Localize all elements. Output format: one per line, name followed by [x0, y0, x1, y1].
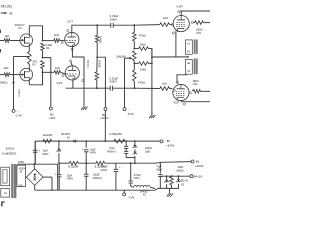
pin bubble pentode2 grid: [173, 89, 175, 91]
wire to pentode2 grid: [170, 88, 173, 90]
label (50k) note: [0, 81, 8, 85]
label R1: [32, 64, 36, 67]
label 400V first: [42, 153, 49, 156]
svg-text:100kΩ: 100kΩ: [145, 147, 152, 150]
resistor 180 ohm upper: [195, 21, 204, 25]
label V1/T upper: [67, 19, 73, 23]
resistor 390k lower: [95, 72, 99, 80]
bias line vertical 3.3mA: [13, 57, 15, 110]
label +220V: [195, 164, 204, 168]
zener bias left: [164, 176, 169, 188]
label B4+32V: [194, 175, 203, 178]
wire net top to 470k: [133, 25, 135, 32]
label 6.2k upper: [45, 44, 52, 47]
wire colAB join: [126, 157, 135, 159]
junction gate2 bias: [13, 74, 15, 76]
svg-text:+: +: [119, 165, 121, 169]
label NF: [9, 11, 13, 15]
resistor 470k upper: [133, 32, 137, 41]
svg-text:/500V: /500V: [110, 17, 117, 21]
wire bridge bottom: [34, 185, 36, 190]
svg-text:6.3Vdc: 6.3Vdc: [86, 59, 90, 68]
label 10k pot: [116, 55, 126, 59]
resistor 1k input lower: [4, 73, 10, 77]
transistor Q2 2SK117: [20, 68, 33, 81]
wire bias branch down: [130, 163, 132, 181]
svg-text:‹: ‹: [131, 191, 132, 195]
resistor 10k upper: [139, 47, 149, 51]
OPT2 core bars: [194, 58, 198, 74]
terminal B3: [49, 107, 52, 110]
node B2 tap rail: [104, 140, 106, 142]
wire 6.2k lower to grid2: [42, 69, 44, 73]
svg-text:1kΩ: 1kΩ: [163, 16, 168, 20]
svg-text:1N4007: 1N4007: [61, 132, 71, 136]
svg-text:+: +: [55, 172, 57, 176]
zener bias right: [176, 176, 181, 188]
wire B2 to PSU rail: [104, 111, 106, 142]
resistor 10k bias: [170, 176, 174, 188]
wire FET2 source down: [28, 81, 30, 85]
svg-text:1kΩ: 1kΩ: [4, 66, 9, 70]
label B1b: [196, 160, 200, 164]
wire node to B2 drop: [97, 57, 105, 107]
svg-text:-5.4V: -5.4V: [127, 112, 134, 116]
svg-text:V1/T: V1/T: [57, 81, 63, 85]
diode 1N4007 PSU: [74, 139, 76, 142]
tube V2 triode lower: [65, 66, 80, 80]
label 47uF bias: [156, 165, 162, 168]
svg-text:390kΩ: 390kΩ: [99, 36, 103, 44]
node cap2 top: [85, 140, 87, 142]
wire to grid stopper 1: [43, 40, 54, 42]
current arrow 3.3mA: [12, 82, 14, 85]
label 100k colB: [145, 147, 152, 150]
pin bubble pentode1 grid: [171, 23, 173, 25]
label 400V colA: [107, 150, 117, 153]
label 470uF fifth: [101, 166, 108, 169]
wire tube1 plate to rail: [71, 25, 73, 32]
node colB rail: [134, 162, 136, 164]
wire colB down: [134, 158, 136, 163]
resistor 1k 2W: [43, 139, 52, 143]
wire pot to node: [133, 61, 135, 64]
svg-text:1kΩ: 1kΩ: [4, 34, 9, 38]
label 1N4007 upper: [61, 132, 71, 136]
label 1W upper: [196, 31, 201, 35]
node cathode tap: [96, 56, 98, 58]
wire cap1 to net: [113, 24, 134, 26]
resistor 6.2k R2 upper: [41, 43, 45, 51]
tube V1 triode upper: [64, 32, 79, 46]
PSU lower rail a: [59, 162, 69, 164]
svg-text:+32V: +32V: [49, 116, 56, 120]
left edge stub upper: [0, 30, 1, 34]
bridge rectifier diamond: [26, 169, 43, 186]
capacitor 47uF bias: [158, 175, 162, 189]
svg-text:/250V(2): /250V(2): [92, 177, 101, 180]
resistor 1k input upper: [4, 39, 10, 43]
wire 10k lower to gnd column: [148, 62, 152, 64]
terminal -5.4V bottom: [123, 190, 126, 196]
left edge stub lower: [0, 49, 1, 53]
wire sec top stub: [17, 164, 19, 165]
pin bubble tube1 grid: [61, 42, 63, 44]
label AC aux: [4, 191, 8, 195]
label 1N4007 lower: [139, 189, 149, 193]
OPT1 winding box: [185, 40, 192, 54]
label KmB250F2 model: [2, 151, 16, 155]
label 0.33uF upper: [110, 14, 119, 18]
node grid network top: [133, 24, 135, 26]
svg-text:1kΩ/2W: 1kΩ/2W: [43, 133, 53, 137]
wire 180R lower to edge: [200, 90, 210, 92]
svg-text:1kΩ: 1kΩ: [55, 66, 60, 70]
wire bridge right down: [51, 177, 53, 191]
label 250V fourth: [92, 177, 101, 180]
capacitor 0.33uF ch1: [111, 23, 113, 28]
label OPT1 t2: [187, 51, 191, 54]
wire to FET1 gate: [10, 40, 20, 42]
label -5.4V bottom: [128, 191, 135, 200]
bridge left stub: [25, 176, 26, 178]
node colB top: [134, 140, 136, 142]
wire 470k to node: [133, 41, 135, 49]
svg-text:V1/P: V1/P: [173, 101, 179, 105]
PT secondary box: [17, 165, 26, 187]
label K2 lower: [143, 194, 147, 197]
label -1.4V: [15, 113, 22, 117]
label 1W colB: [145, 151, 150, 154]
node bias b: [171, 175, 173, 177]
label 10uF third: [67, 174, 73, 177]
wire 470k lower to rail: [133, 81, 135, 88]
label 1k lower input: [4, 66, 9, 70]
label 470uF sixth: [134, 174, 141, 177]
pin bubble pentode2 cathode: [183, 103, 185, 105]
node 390k tap: [96, 24, 98, 26]
terminal -5.4V: [123, 108, 126, 111]
wire 6.2k to tap: [42, 51, 44, 58]
label EI504: [19, 167, 26, 170]
wire plate rail to cap: [72, 24, 111, 26]
pin bubble tube2 grid: [62, 75, 64, 77]
label K2 diode: [67, 136, 71, 139]
wire 390k to node: [96, 42, 98, 57]
resistor 8.2 second: [96, 161, 105, 165]
ground symbol divider: [149, 113, 155, 119]
pot wiper arrow: [125, 57, 133, 60]
wire bias horizontal: [160, 175, 190, 177]
resistor 8.2 first: [69, 161, 78, 165]
svg-text:B4+32V: B4+32V: [194, 175, 203, 178]
PSU rail to B1b terminal: [161, 161, 191, 164]
label RD-30: [181, 180, 189, 183]
svg-text:041 2E): 041 2E): [1, 4, 12, 8]
wire rail to pentode2 grid res: [135, 87, 160, 89]
node cap2 bottom: [85, 162, 87, 164]
resistor 47ohm interstage: [28, 52, 32, 65]
svg-text:/400V: /400V: [90, 152, 97, 155]
svg-text:V1/T: V1/T: [67, 19, 73, 23]
label 3.3mA rotated: [17, 89, 21, 97]
wire input lower: [0, 74, 4, 76]
terminal -1.4V: [12, 109, 15, 112]
svg-text:NF: NF: [9, 11, 13, 15]
zener column B first: [133, 141, 138, 148]
wire pot bottom to 10k: [134, 62, 138, 64]
node 390k lower rail: [96, 87, 98, 89]
label 2SK117: [15, 23, 25, 27]
wire tube2 plate up: [71, 62, 73, 66]
terminal B4: [190, 175, 193, 178]
resistor 390k upper: [95, 35, 99, 42]
pin bubble pentode2 screen: [189, 92, 191, 94]
label V1/P upper: [176, 5, 182, 9]
svg-text:‹: ‹: [129, 107, 130, 111]
svg-text:/400V: /400V: [42, 153, 49, 156]
tube V1/P pentode upper: [173, 16, 189, 32]
wire node to 470k lower: [133, 63, 135, 70]
svg-text:10kΩ(B): 10kΩ(B): [116, 55, 126, 59]
label 1W lower: [193, 82, 198, 86]
svg-text:50V/2A: 50V/2A: [6, 146, 15, 150]
label 100uF fourth: [93, 174, 100, 177]
NF feedback arrow: [1, 12, 8, 14]
label figure glyph: [1, 202, 5, 207]
label 1k grid upper: [54, 33, 59, 37]
svg-text:(5W)Ω: (5W)Ω: [177, 169, 184, 172]
wire pentode1 cathode stub: [175, 31, 177, 33]
ground rail: [35, 188, 158, 190]
label 5W bias: [177, 169, 184, 172]
label plus cap1: [38, 148, 40, 152]
label 180 upper: [196, 28, 202, 32]
wire screen to 180R: [193, 22, 194, 24]
capacitor 47uF column A: [124, 141, 128, 158]
secondary top wire: [18, 163, 41, 165]
bridge diode 1: [33, 174, 36, 176]
wire tube2 cathode down: [72, 80, 74, 88]
pin bubble pentode1 top: [178, 11, 180, 13]
label 250WV upper: [110, 17, 117, 21]
label 50V: [19, 184, 24, 187]
resistor 10k lower: [139, 62, 149, 66]
node zener1 bottom: [58, 162, 60, 164]
node pot top: [133, 48, 135, 50]
svg-text:+: +: [82, 147, 84, 151]
resistor 4.7k 2W: [114, 139, 125, 143]
resistor 1k grid stopper upper: [54, 39, 60, 43]
label OPT2 t2: [187, 70, 191, 73]
wire cap2 to net: [113, 87, 135, 89]
label +405V: [100, 116, 109, 120]
pin bubble pentode2 top: [177, 81, 179, 83]
potentiometer 10k body: [133, 51, 137, 61]
label 10k upper: [139, 42, 145, 46]
title text (041 2E): [1, 4, 12, 8]
node gnd column upper: [151, 57, 153, 59]
svg-text:/1W: /1W: [193, 82, 198, 86]
wire 390k lower to rail: [96, 80, 98, 88]
svg-text:230V: 230V: [18, 160, 24, 164]
resistor 470k lower: [133, 70, 137, 81]
label 390k upper rotated: [99, 36, 103, 44]
ground symbol main: [167, 188, 173, 196]
svg-text:V1/P: V1/P: [176, 5, 182, 9]
terminal B2: [104, 108, 107, 111]
label 470k upper: [139, 35, 146, 38]
label 10k bias: [177, 166, 183, 169]
label +420V: [166, 143, 175, 147]
wire pot top to 10k: [134, 48, 138, 50]
wire center tap feed: [152, 56, 188, 58]
PT core bars: [11, 164, 16, 198]
wire pentode2 cathode right: [181, 101, 210, 102]
label OPT1 t1: [187, 42, 191, 45]
svg-text:390kΩ: 390kΩ: [97, 60, 101, 68]
svg-text:47μF: 47μF: [109, 147, 115, 150]
tube V2/P pentode lower: [173, 84, 189, 100]
wire pentode2 plate to OPT2: [177, 75, 187, 84]
wire grid2 junction down: [29, 72, 42, 85]
zener RD upper-left: [57, 141, 62, 163]
ground symbol cathode: [81, 104, 87, 110]
pin bubble tube2 extra: [82, 79, 84, 81]
input wire upper: [0, 40, 4, 42]
label K1: [18, 27, 22, 30]
wire to grid stopper 2: [43, 71, 55, 73]
node OPT center tap: [187, 56, 189, 58]
node grid1 junction: [42, 40, 44, 42]
bottom signal rail ch2: [66, 87, 111, 89]
label 25V fifth: [101, 169, 108, 172]
wire pentode1 cath down: [175, 33, 177, 57]
svg-text:-1.4V: -1.4V: [15, 113, 22, 117]
PT primary box: [1, 167, 10, 186]
label 25V sixth: [134, 177, 140, 180]
wire plate to OPT1 edge: [180, 10, 210, 12]
wire node to 390k lower: [96, 57, 98, 72]
svg-text:/(25)V: /(25)V: [101, 169, 108, 172]
label V1/P lower: [173, 101, 179, 105]
capacitor 100uF fourth: [84, 163, 89, 190]
wire B4 line: [159, 162, 161, 174]
label 6.3Vdc rotated: [86, 59, 90, 68]
svg-text:/500V: /500V: [110, 80, 117, 84]
node pot bottom: [133, 63, 135, 65]
PT aux box: [1, 189, 10, 198]
svg-text:KmB250F2: KmB250F2: [2, 151, 16, 155]
label 50V/2A: [6, 146, 15, 150]
node grid network bottom: [134, 87, 136, 89]
label 1k pentode2: [162, 81, 167, 85]
bias line horizontal: [14, 56, 30, 58]
node grid2 junction: [42, 71, 44, 73]
svg-text:4.7kΩ(2W): 4.7kΩ(2W): [109, 132, 122, 136]
node bias c: [178, 175, 180, 177]
transistor Q1 2SK117: [20, 34, 33, 47]
label 400V second: [90, 152, 97, 155]
svg-text:/400V×2: /400V×2: [107, 150, 117, 153]
label 470k lower: [138, 81, 145, 84]
pin bubble pentode1 screen: [191, 21, 193, 23]
wire coil right: [150, 187, 155, 188]
wire pentode1 plate up: [180, 11, 182, 16]
label OPT2 t1: [187, 62, 191, 65]
svg-text:10kΩ: 10kΩ: [140, 67, 146, 71]
label 10k lower: [140, 67, 146, 71]
label plus cap2: [82, 147, 84, 151]
pin bubble tube2 plate: [70, 60, 72, 62]
svg-text:-5.4V: -5.4V: [128, 196, 135, 200]
OPT2 winding box: [185, 60, 192, 75]
capacitor 470uF sixth: [129, 181, 133, 186]
svg-text:RD-30: RD-30: [181, 180, 189, 183]
svg-text:470kΩ: 470kΩ: [138, 81, 145, 84]
wire coil left: [131, 186, 134, 187]
wire tube1 cathode path: [72, 47, 84, 106]
label plus cap5: [119, 165, 121, 169]
wire screen2 to 180R: [192, 89, 193, 91]
label 1k grid lower: [55, 66, 60, 70]
PSU lower rail c: [105, 162, 157, 164]
label 230V: [18, 160, 24, 164]
inductor heater coil: [134, 185, 151, 187]
label 10uF first: [42, 150, 48, 153]
svg-text:10kΩ: 10kΩ: [139, 42, 145, 46]
label 400V third: [67, 178, 74, 181]
OPT1 core bars: [194, 40, 198, 54]
label 47uF colA: [109, 147, 115, 150]
zener column B second: [133, 149, 138, 157]
ground rail right: [158, 187, 179, 189]
wire wiper to -5.4V terminal: [124, 58, 126, 107]
wire FET1 source to 47ohm: [28, 47, 30, 52]
node colA top: [125, 140, 127, 142]
resistor 1k pentode1 grid: [160, 23, 170, 27]
PSU lower rail d: [156, 161, 161, 164]
wire to pentode1 grid: [170, 24, 173, 26]
label 1k pentode1: [163, 16, 168, 20]
resistor 180 ohm lower: [193, 90, 200, 94]
svg-text:+220V: +220V: [195, 164, 204, 168]
node bias branch: [130, 162, 132, 164]
capacitor 10uF second: [84, 141, 89, 163]
label 1k upper input: [4, 34, 9, 38]
wire grid1 to tube: [60, 40, 64, 42]
svg-text:+: +: [38, 148, 40, 152]
resistor 6.2k lower: [41, 61, 45, 69]
node zener1 top: [58, 140, 60, 142]
pin bubble tube1 plate: [67, 30, 69, 32]
svg-text:470kΩ: 470kΩ: [139, 35, 146, 38]
wire sec right branch: [40, 164, 58, 190]
wire to FET2 gate: [10, 74, 20, 76]
label B1: [167, 139, 171, 143]
resistor 1k grid stopper lower: [54, 71, 60, 75]
capacitor 10uF/400V first: [33, 141, 38, 164]
svg-text:1kΩ: 1kΩ: [162, 81, 167, 85]
label S4: [19, 170, 23, 173]
wire 180R to edge: [203, 22, 210, 24]
svg-text:+405V: +405V: [100, 116, 109, 120]
label 390k lower rotated: [97, 60, 101, 68]
wire bridge top: [33, 164, 35, 169]
label 500V lower: [110, 80, 117, 84]
terminal B1b +220V: [191, 160, 194, 163]
terminal B1: [160, 140, 163, 143]
